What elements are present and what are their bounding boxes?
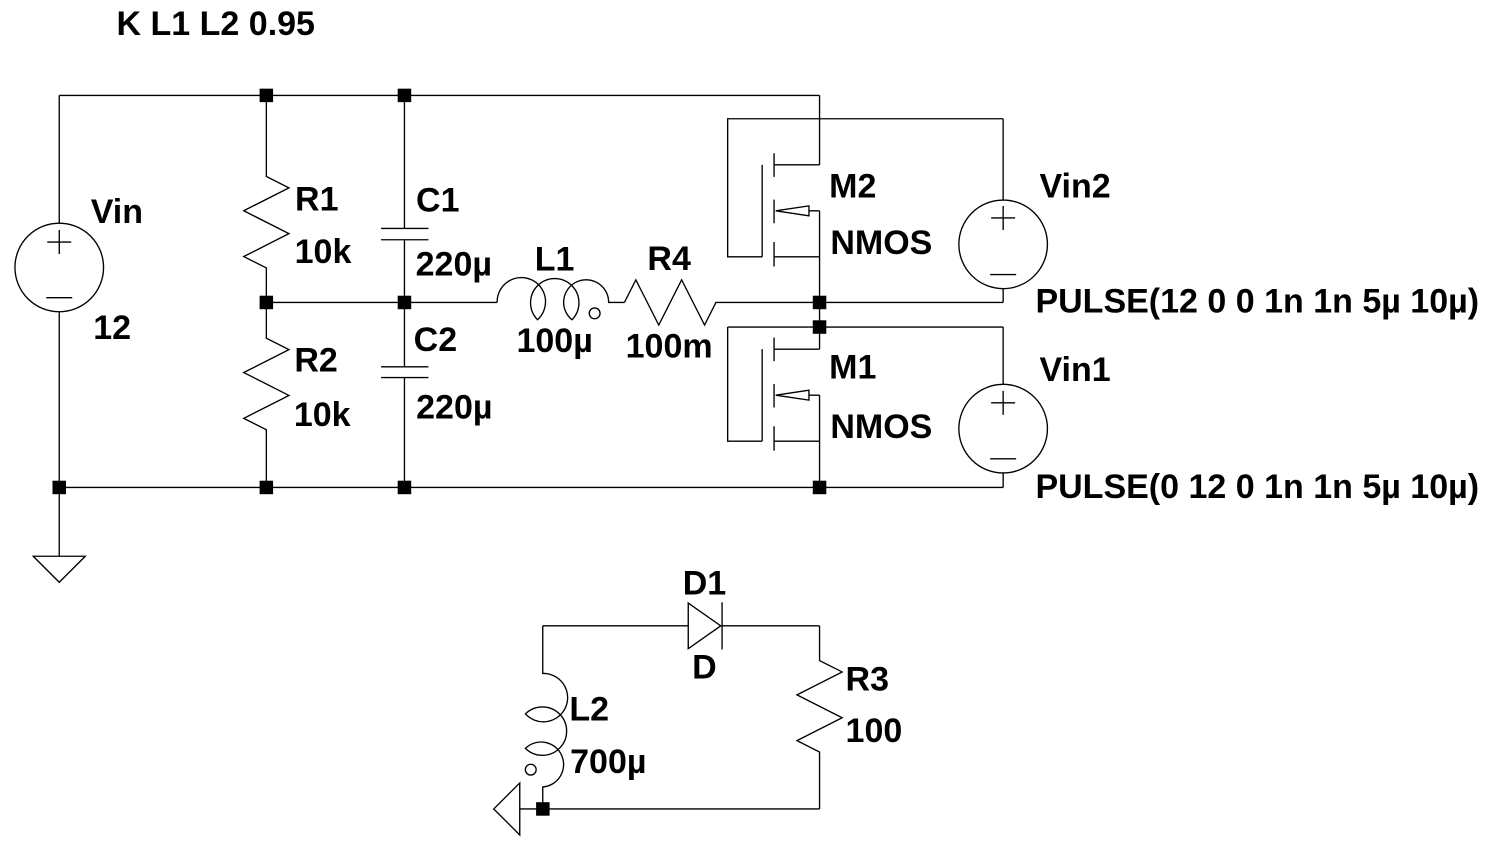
svg-text:700µ: 700µ [570,743,646,781]
transistor M2 body arrow [776,206,809,216]
svg-text:100m: 100m [626,328,713,366]
svg-text:Vin2: Vin2 [1039,167,1110,205]
svg-text:C2: C2 [414,321,457,359]
phase dot L1 [589,308,600,319]
wire Vin bottom to ground [58,312,60,557]
wire Vin2 bottom [1002,289,1004,303]
wire secondary bottom [520,808,820,810]
capacitor C1 [381,95,428,302]
diode D1 cathode bar [721,602,723,649]
svg-text:L2: L2 [569,690,609,728]
wire M1 gate rail [728,326,1004,328]
svg-text:10k: 10k [294,396,351,434]
inductor L1 [497,278,624,320]
resistor R2 [244,302,289,487]
node junction L2 bottom [536,802,550,816]
transistor M1 [762,338,819,451]
node junction M1 source bottom [813,481,827,495]
svg-text:PULSE(0 12 0 1n 1n 5µ 10µ): PULSE(0 12 0 1n 1n 5µ 10µ) [1035,468,1479,506]
wire M2 drain [819,95,821,164]
diode D1 [688,603,721,649]
wire left drop to Vin [58,95,60,223]
capacitor C2 [381,302,428,487]
wire Vin2 top [1002,119,1004,200]
svg-text:PULSE(12 0 0 1n 1n 5µ 10µ): PULSE(12 0 0 1n 1n 5µ 10µ) [1035,282,1479,320]
svg-text:NMOS: NMOS [830,408,932,446]
svg-text:100: 100 [846,712,903,750]
resistor R1 [244,95,289,302]
wire M1 source [819,395,821,487]
svg-text:Vin1: Vin1 [1039,351,1110,389]
svg-text:M2: M2 [829,167,876,205]
ground secondary [494,783,520,835]
node junction C1-C2 mid [398,296,412,310]
node junction M1 drain tap [813,320,827,334]
transistor M2 [762,153,819,266]
node junction R2 bottom [260,481,274,495]
inductor L2 [525,626,567,809]
svg-text:10k: 10k [295,233,352,271]
wire M2 source [819,211,821,303]
svg-text:K L1 L2 0.95: K L1 L2 0.95 [117,5,315,43]
wire Vin1 top [1002,327,1004,384]
voltage source Vin2 [959,200,1048,289]
resistor R3 [797,626,842,809]
node junction C1 top [398,89,412,103]
svg-text:100µ: 100µ [516,322,592,360]
wire secondary top [543,625,820,627]
ground primary [33,556,85,582]
node junction bottom-left [53,481,67,495]
svg-text:220µ: 220µ [416,388,492,426]
wire Vin1 bottom [1002,473,1004,488]
svg-text:L1: L1 [535,241,575,279]
voltage source Vin1 [959,384,1048,473]
wire M1 gate loop [728,327,763,441]
svg-text:12: 12 [93,309,131,347]
voltage source Vin [15,223,104,312]
node junction mid rail at MOSFET column [813,296,827,310]
svg-text:C1: C1 [416,181,459,219]
svg-text:220µ: 220µ [416,245,492,283]
wire top rail [59,94,819,96]
transistor M1 body arrow [776,390,809,400]
svg-text:D1: D1 [683,564,726,602]
phase dot L2 [525,764,536,775]
svg-text:R4: R4 [647,240,691,278]
svg-text:R3: R3 [846,661,889,699]
node junction R1 top [260,89,274,103]
wire mid rail left [266,301,497,303]
svg-text:D: D [692,649,717,687]
node junction R1-R2 mid [260,296,274,310]
wire M1 drain [819,327,821,349]
svg-text:NMOS: NMOS [830,224,932,262]
node junction C2 bottom [398,481,412,495]
wire bottom rail [59,486,1003,488]
wire between mid junctions [819,302,821,327]
svg-text:Vin: Vin [91,193,143,231]
svg-text:M1: M1 [829,348,876,386]
svg-text:R1: R1 [295,181,338,219]
wire M2 gate loop [728,119,1004,257]
resistor R4 [624,280,1003,325]
svg-text:R2: R2 [294,342,337,380]
